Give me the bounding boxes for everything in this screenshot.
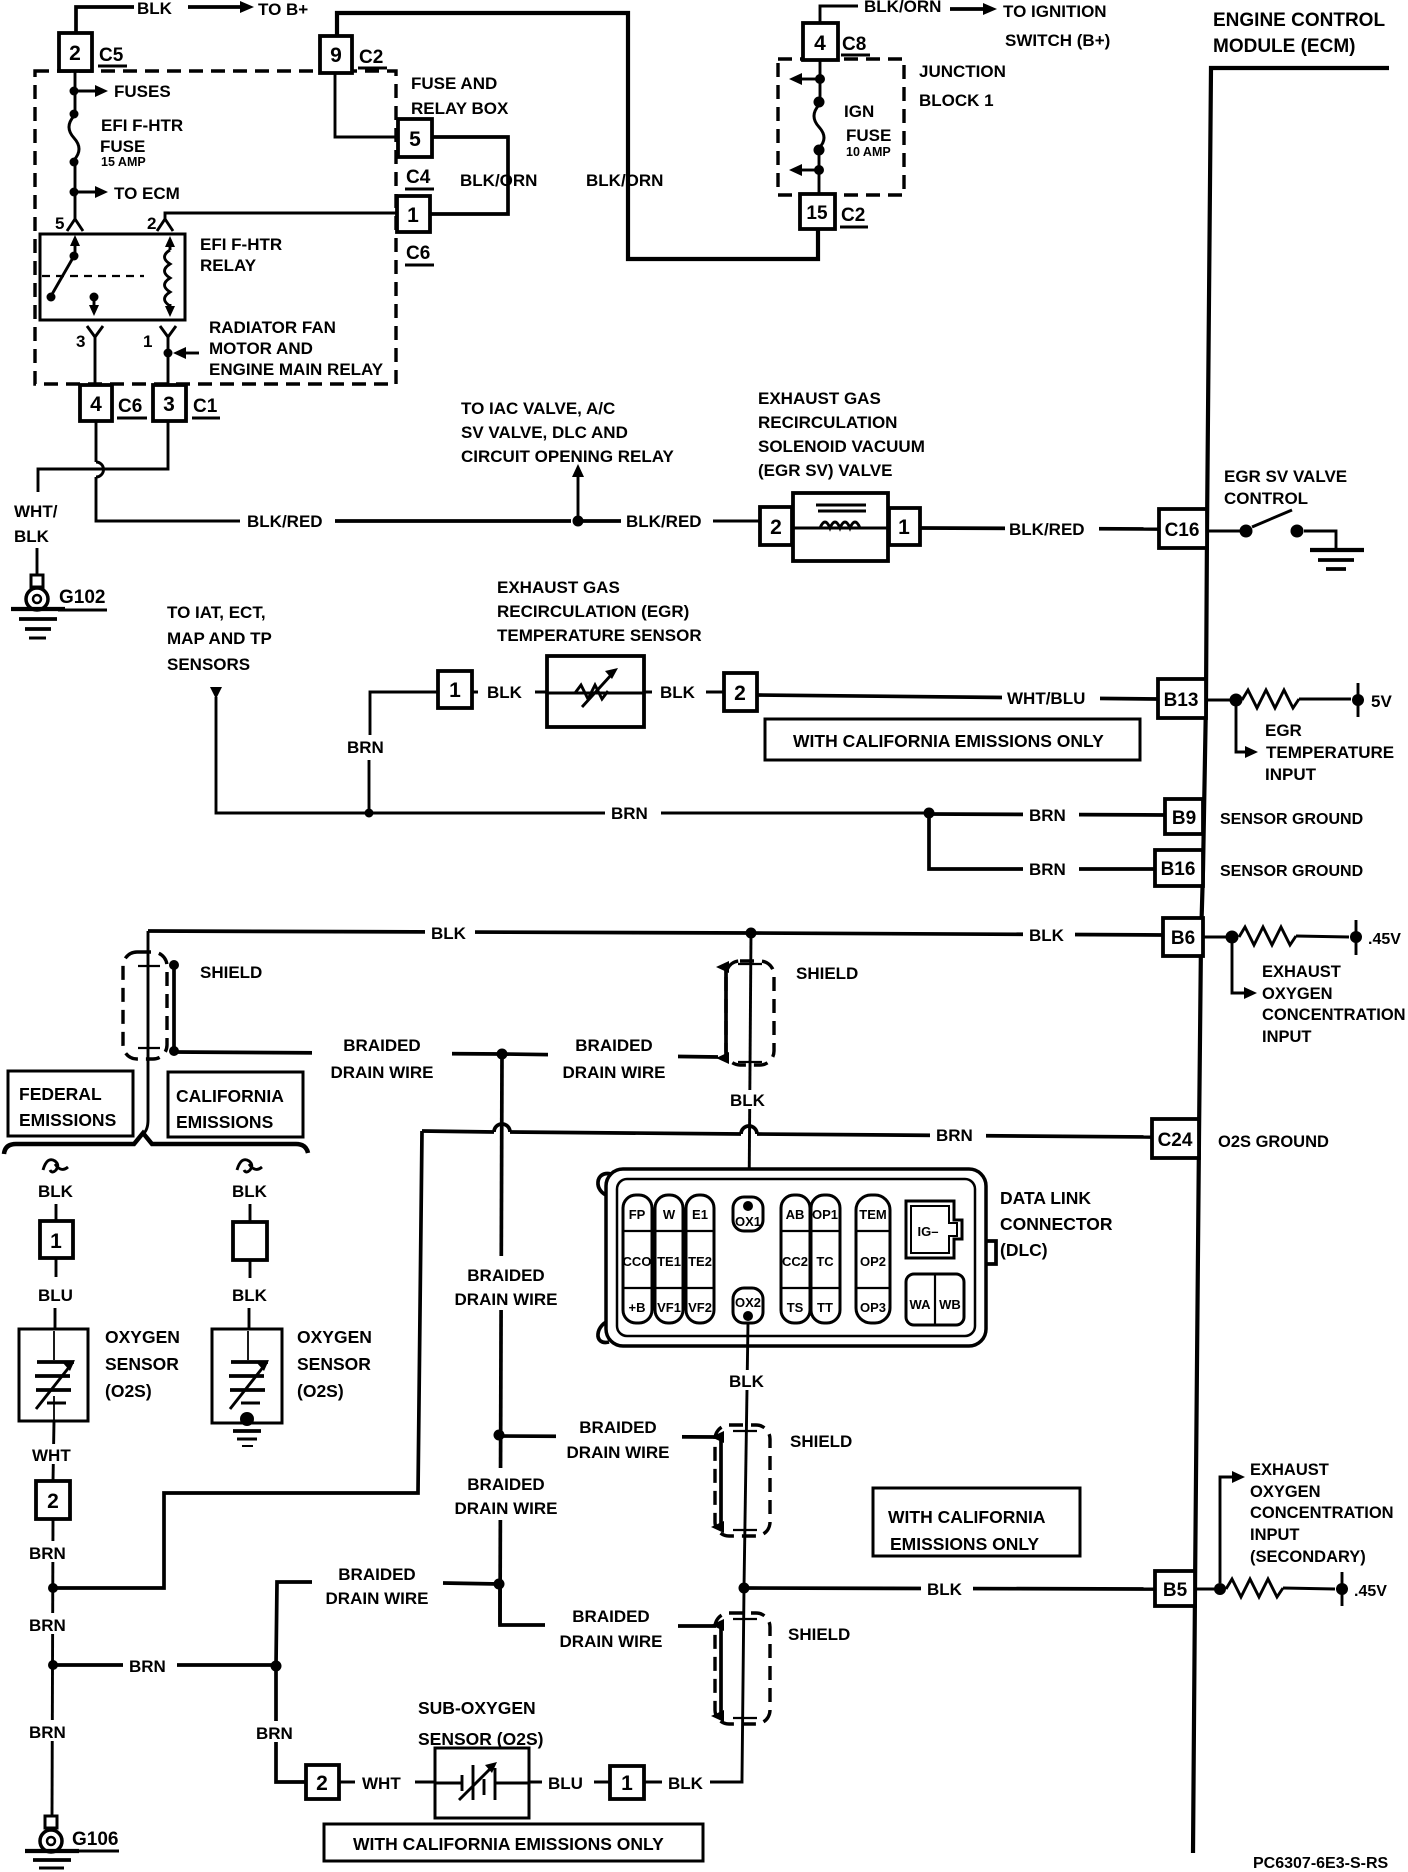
svg-text:TO ECM: TO ECM bbox=[114, 184, 180, 203]
label BLK bbox=[472, 691, 547, 694]
svg-text:.45V: .45V bbox=[1368, 931, 1401, 948]
svg-text:1: 1 bbox=[407, 204, 419, 227]
svg-text:DRAIN WIRE: DRAIN WIRE bbox=[331, 1063, 434, 1082]
svg-text:WHT: WHT bbox=[32, 1446, 71, 1465]
shield 3 bbox=[715, 1425, 770, 1536]
svg-text:EFI F-HTR: EFI F-HTR bbox=[101, 116, 183, 135]
node BLK to B5 bbox=[739, 1583, 750, 1594]
svg-text:BRN: BRN bbox=[1029, 806, 1066, 825]
svg-text:BRAIDED: BRAIDED bbox=[338, 1565, 415, 1584]
EGR temp pin 1 bbox=[438, 671, 472, 708]
svg-text:MODULE (ECM): MODULE (ECM) bbox=[1213, 36, 1355, 57]
node BLK to OX1 bbox=[746, 928, 757, 939]
svg-text:AB: AB bbox=[786, 1207, 805, 1222]
node BRN to O2S ground network bbox=[48, 1583, 58, 1593]
svg-text:CIRCUIT OPENING RELAY: CIRCUIT OPENING RELAY bbox=[461, 447, 675, 466]
label BLK bbox=[1023, 924, 1075, 945]
DLC pin column OP1/TC/TT bbox=[811, 1195, 840, 1323]
box WITH CALIFORNIA EMISSIONS ONLY bbox=[873, 1488, 1080, 1556]
svg-text:TO IAC VALVE, A/C: TO IAC VALVE, A/C bbox=[461, 399, 615, 418]
svg-text:BLK: BLK bbox=[232, 1182, 268, 1201]
svg-text:BLK/RED: BLK/RED bbox=[247, 512, 323, 531]
connector 4 C8 bbox=[803, 23, 838, 60]
arrow EGR TEMPERATURE INPUT bbox=[1236, 706, 1248, 752]
svg-text:VF2: VF2 bbox=[688, 1300, 712, 1315]
node california BRN junction bbox=[271, 1661, 282, 1672]
relay EFI F-HTR box bbox=[40, 234, 185, 320]
connector 4 C6 bbox=[80, 385, 112, 421]
node and arrow TO ECM bbox=[70, 188, 79, 197]
DLC pins WA WB bbox=[906, 1274, 964, 1325]
svg-text:SENSOR GROUND: SENSOR GROUND bbox=[1220, 863, 1363, 880]
svg-text:DRAIN WIRE: DRAIN WIRE bbox=[563, 1063, 666, 1082]
EGR SV valve body with coil bbox=[793, 493, 888, 561]
DLC pin column FP/CCO/+B bbox=[623, 1195, 652, 1323]
svg-text:INPUT: INPUT bbox=[1262, 1028, 1312, 1046]
svg-text:BLK: BLK bbox=[431, 924, 467, 943]
ground at california O2S bbox=[240, 1412, 254, 1426]
svg-text:CC2: CC2 bbox=[782, 1254, 808, 1269]
svg-text:10 AMP: 10 AMP bbox=[846, 145, 891, 159]
svg-text:SHIELD: SHIELD bbox=[200, 963, 262, 982]
svg-text:WA: WA bbox=[910, 1297, 932, 1312]
svg-text:BLK: BLK bbox=[38, 1182, 74, 1201]
svg-text:5: 5 bbox=[55, 214, 64, 233]
svg-text:WHT/: WHT/ bbox=[14, 502, 58, 521]
svg-text:B16: B16 bbox=[1161, 859, 1196, 880]
label BLU bbox=[529, 1781, 610, 1784]
svg-text:OP1: OP1 bbox=[812, 1207, 838, 1222]
wire from 3 C1 to G102 bbox=[38, 421, 168, 492]
label BLK/RED bbox=[241, 511, 335, 532]
svg-text:TE1: TE1 bbox=[657, 1254, 681, 1269]
svg-text:1: 1 bbox=[898, 516, 910, 539]
svg-text:C4: C4 bbox=[406, 167, 431, 188]
DLC data link connector shell bbox=[598, 1174, 611, 1196]
BRN horizontal to california branch bbox=[53, 1663, 276, 1667]
wire from 4 C6 down with hop over WHT/BLK, then BLK/RED bbox=[95, 421, 98, 462]
svg-text:BLK: BLK bbox=[232, 1286, 268, 1305]
svg-text:CONNECTOR: CONNECTOR bbox=[1000, 1214, 1113, 1234]
DLC OX2 pin dot bbox=[743, 1311, 753, 1321]
wire WHT bbox=[53, 1421, 54, 1481]
svg-text:TO IGNITION: TO IGNITION bbox=[1003, 2, 1107, 21]
svg-text:BRN: BRN bbox=[611, 804, 648, 823]
svg-text:TE2: TE2 bbox=[688, 1254, 712, 1269]
svg-text:OX2: OX2 bbox=[735, 1295, 761, 1310]
relay pin 3 female connector bbox=[87, 326, 103, 337]
EGR SV valve pin 1 bbox=[889, 508, 920, 545]
svg-text:TS: TS bbox=[787, 1300, 804, 1315]
node pin1 with arrow from radiator fan relay bbox=[164, 349, 173, 358]
federal emissions box bbox=[8, 1071, 133, 1136]
O2S federal pin 1 bbox=[40, 1221, 73, 1258]
svg-text:WITH CALIFORNIA EMISSIONS ONLY: WITH CALIFORNIA EMISSIONS ONLY bbox=[793, 731, 1104, 751]
relay contact pin3 bbox=[90, 293, 99, 302]
DLC pin column AB/CC2/TS bbox=[781, 1195, 810, 1323]
wire BRN chain to G106 bbox=[52, 1519, 53, 1816]
svg-text:EMISSIONS: EMISSIONS bbox=[176, 1112, 273, 1132]
svg-text:FUSES: FUSES bbox=[114, 82, 171, 101]
svg-text:SHIELD: SHIELD bbox=[788, 1625, 850, 1644]
wire left BLK down to emissions brace bbox=[143, 931, 148, 1134]
ground G106 bbox=[45, 1816, 57, 1828]
O2S california connector box bbox=[233, 1222, 267, 1260]
shield 4 bbox=[715, 1613, 770, 1724]
svg-text:RECIRCULATION (EGR): RECIRCULATION (EGR) bbox=[497, 602, 689, 621]
svg-text:WHT: WHT bbox=[362, 1774, 401, 1793]
arrow to B+ bbox=[188, 5, 243, 9]
svg-text:SENSOR: SENSOR bbox=[297, 1354, 371, 1374]
svg-text:2: 2 bbox=[316, 1772, 328, 1795]
svg-text:1: 1 bbox=[621, 1772, 633, 1795]
label BLK bbox=[644, 691, 724, 694]
sub O2S pin 2 bbox=[306, 1765, 339, 1799]
DLC OX1 pin dot bbox=[743, 1201, 753, 1211]
svg-text:BLK/RED: BLK/RED bbox=[626, 512, 702, 531]
svg-text:BRAIDED: BRAIDED bbox=[572, 1607, 649, 1626]
svg-text:15: 15 bbox=[806, 203, 828, 224]
DLC pin column E1/TE2/VF2 bbox=[686, 1195, 714, 1323]
svg-text:EXHAUST: EXHAUST bbox=[1250, 1461, 1329, 1479]
svg-text:SWITCH (B+): SWITCH (B+) bbox=[1005, 31, 1110, 50]
dashed box EFI F-HTR relay / fuse area bbox=[35, 71, 396, 384]
svg-text:G102: G102 bbox=[59, 587, 105, 608]
svg-text:TO IAT, ECT,: TO IAT, ECT, bbox=[167, 603, 266, 622]
label BLK bbox=[727, 1090, 771, 1109]
oxygen sensor federal body bbox=[19, 1329, 88, 1421]
node EGR BRN joins bbox=[365, 809, 374, 818]
fuse EFI F-HTR 15 AMP squiggle bbox=[69, 116, 79, 160]
svg-text:DRAIN WIRE: DRAIN WIRE bbox=[455, 1499, 558, 1518]
oxygen sensor california body bbox=[212, 1329, 282, 1423]
wire BLK O2S signal line to B6 bbox=[148, 931, 1163, 935]
svg-text:DATA LINK: DATA LINK bbox=[1000, 1188, 1091, 1208]
svg-text:OX1: OX1 bbox=[735, 1214, 761, 1229]
svg-text:BRN: BRN bbox=[29, 1616, 66, 1635]
svg-text:C6: C6 bbox=[406, 243, 430, 264]
arrow from IAT/ECT sensors down to BRN line bbox=[210, 687, 222, 699]
svg-text:RECIRCULATION: RECIRCULATION bbox=[758, 413, 897, 432]
svg-text:SENSORS: SENSORS bbox=[167, 655, 250, 674]
ECM connector B5 bbox=[1155, 1571, 1195, 1606]
svg-text:BRN: BRN bbox=[29, 1723, 66, 1742]
svg-text:DRAIN WIRE: DRAIN WIRE bbox=[455, 1290, 558, 1309]
wire down to sub O2S pin 2 bbox=[276, 1666, 306, 1782]
svg-text:VF1: VF1 bbox=[657, 1300, 681, 1315]
svg-text:OP3: OP3 bbox=[860, 1300, 886, 1315]
svg-text:TEM: TEM bbox=[859, 1207, 886, 1222]
svg-text:FP: FP bbox=[629, 1207, 646, 1222]
label WHT/BLU bbox=[1002, 687, 1100, 708]
svg-text:3: 3 bbox=[163, 393, 175, 416]
label BRN bbox=[1023, 804, 1079, 826]
svg-text:C8: C8 bbox=[842, 34, 866, 55]
svg-text:CALIFORNIA: CALIFORNIA bbox=[176, 1086, 284, 1106]
svg-text:FUSE: FUSE bbox=[100, 137, 145, 156]
label WHT bbox=[339, 1781, 435, 1784]
resistor to .45V bbox=[1214, 1583, 1226, 1595]
EGR SV valve pin 2 bbox=[760, 507, 792, 545]
svg-text:BRAIDED: BRAIDED bbox=[343, 1036, 420, 1055]
svg-text:OP2: OP2 bbox=[860, 1254, 886, 1269]
connector 2 C5 bbox=[59, 33, 92, 71]
svg-text:BLK: BLK bbox=[487, 683, 523, 702]
svg-text:3: 3 bbox=[76, 332, 85, 351]
svg-text:(DLC): (DLC) bbox=[1000, 1240, 1048, 1260]
svg-text:BLK: BLK bbox=[668, 1774, 704, 1793]
label BRN bbox=[1023, 858, 1079, 880]
svg-text:4: 4 bbox=[90, 393, 102, 416]
wire from C5 pin 2 down bbox=[74, 71, 77, 117]
svg-text:B5: B5 bbox=[1163, 1580, 1188, 1601]
relay linkage dashed bbox=[42, 275, 144, 277]
svg-text:9: 9 bbox=[330, 44, 342, 67]
svg-text:CONTROL: CONTROL bbox=[1224, 489, 1308, 508]
svg-text:INPUT: INPUT bbox=[1250, 1526, 1300, 1544]
ground G102 bbox=[31, 575, 43, 587]
svg-text:C6: C6 bbox=[118, 396, 142, 417]
node above fuse bbox=[70, 110, 79, 119]
EGR temperature sensor body bbox=[547, 656, 644, 727]
svg-text:5: 5 bbox=[409, 128, 421, 151]
wire BRN to B16 bbox=[929, 813, 1155, 869]
svg-text:EGR SV VALVE: EGR SV VALVE bbox=[1224, 467, 1347, 486]
svg-text:MOTOR AND: MOTOR AND bbox=[209, 339, 313, 358]
svg-text:ENGINE MAIN RELAY: ENGINE MAIN RELAY bbox=[209, 360, 384, 379]
svg-text:EXHAUST: EXHAUST bbox=[1262, 963, 1341, 981]
svg-text:C16: C16 bbox=[1165, 520, 1200, 541]
svg-text:SENSOR GROUND: SENSOR GROUND bbox=[1220, 811, 1363, 828]
svg-text:BRN: BRN bbox=[129, 1657, 166, 1676]
svg-text:INPUT: INPUT bbox=[1265, 765, 1317, 784]
svg-text:BLK: BLK bbox=[137, 0, 173, 18]
svg-text:EFI F-HTR: EFI F-HTR bbox=[200, 235, 282, 254]
O2S ground network routing bbox=[53, 1131, 422, 1588]
svg-text:C1: C1 bbox=[193, 396, 218, 417]
label BLK bbox=[425, 922, 475, 943]
wire OX2 down through shields to sub O2S bbox=[744, 1323, 748, 1588]
svg-text:C2: C2 bbox=[359, 47, 383, 68]
label BLK bbox=[644, 1781, 742, 1784]
shield middle bbox=[726, 961, 774, 1065]
svg-text:C24: C24 bbox=[1158, 1130, 1193, 1151]
resistor to 5V bbox=[1206, 699, 1230, 702]
svg-text:SV VALVE, DLC AND: SV VALVE, DLC AND bbox=[461, 423, 628, 442]
ECM boundary line bbox=[1193, 68, 1389, 1853]
label BLK/RED bbox=[1005, 518, 1099, 539]
wire EGR temp pin1 left and BRN down bbox=[370, 692, 438, 735]
wire 5 C4 to 1 C6 bbox=[430, 137, 508, 214]
svg-text:BLK: BLK bbox=[1029, 926, 1065, 945]
svg-text:BLU: BLU bbox=[548, 1774, 583, 1793]
svg-text:JUNCTION: JUNCTION bbox=[919, 62, 1006, 81]
ECM connector B13 bbox=[1158, 679, 1206, 718]
svg-text:IGN: IGN bbox=[844, 102, 874, 121]
wire BLK to B5 bbox=[744, 1588, 1155, 1589]
svg-text:SENSOR: SENSOR bbox=[105, 1354, 179, 1374]
svg-text:TEMPERATURE: TEMPERATURE bbox=[1266, 743, 1394, 762]
box WITH CALIFORNIA EMISSIONS ONLY bbox=[765, 719, 1140, 760]
svg-text:WITH CALIFORNIA: WITH CALIFORNIA bbox=[888, 1507, 1046, 1527]
label BRN bbox=[605, 802, 661, 824]
relay pin 2 female connector bbox=[157, 219, 173, 231]
node to IAC valve bbox=[573, 516, 584, 527]
svg-text:1: 1 bbox=[50, 1230, 62, 1253]
connector 5 C4 bbox=[398, 119, 432, 157]
svg-text:5V: 5V bbox=[1371, 692, 1392, 711]
svg-text:BLK: BLK bbox=[14, 527, 50, 546]
svg-text:RELAY BOX: RELAY BOX bbox=[411, 99, 509, 118]
O2S federal pin 2 bbox=[36, 1481, 70, 1519]
label BRN bbox=[930, 1125, 986, 1145]
svg-text:EXHAUST GAS: EXHAUST GAS bbox=[497, 578, 620, 597]
svg-text:CCO: CCO bbox=[623, 1254, 652, 1269]
svg-text:BLK/ORN: BLK/ORN bbox=[586, 171, 663, 190]
svg-text:DRAIN WIRE: DRAIN WIRE bbox=[567, 1443, 670, 1462]
wire relay pin2 to fuse box 1 C6 bbox=[165, 213, 397, 219]
relay pin 1 female connector bbox=[160, 326, 176, 337]
wire braided down to shield 4 bbox=[500, 1584, 545, 1625]
squiggle break federal O2S bbox=[43, 1160, 68, 1172]
node below fuse bbox=[70, 158, 79, 167]
squiggle break california O2S bbox=[237, 1160, 262, 1172]
svg-text:BRAIDED: BRAIDED bbox=[467, 1266, 544, 1285]
braided drain vertical wire bbox=[500, 1054, 502, 1625]
svg-text:BLOCK 1: BLOCK 1 bbox=[919, 91, 994, 110]
shield left (federal O2S) bbox=[123, 952, 167, 1059]
svg-text:G106: G106 bbox=[72, 1829, 118, 1850]
svg-text:TEMPERATURE SENSOR: TEMPERATURE SENSOR bbox=[497, 626, 702, 645]
fuse IGN 10 AMP squiggle bbox=[814, 105, 824, 148]
svg-text:(O2S): (O2S) bbox=[105, 1381, 152, 1401]
sub oxygen sensor body bbox=[435, 1748, 529, 1818]
svg-text:W: W bbox=[663, 1207, 676, 1222]
svg-text:B13: B13 bbox=[1164, 690, 1199, 711]
svg-text:BRN: BRN bbox=[256, 1724, 293, 1743]
ECM connector B9 sensor ground bbox=[1165, 799, 1203, 834]
IGN fuse wire bbox=[819, 60, 822, 104]
svg-text:RADIATOR FAN: RADIATOR FAN bbox=[209, 318, 336, 337]
svg-text:C5: C5 bbox=[99, 45, 124, 66]
svg-text:BRN: BRN bbox=[1029, 860, 1066, 879]
svg-text:BLK/ORN: BLK/ORN bbox=[460, 171, 537, 190]
svg-text:ENGINE CONTROL: ENGINE CONTROL bbox=[1213, 10, 1385, 31]
svg-text:FUSE: FUSE bbox=[846, 126, 891, 145]
box WITH CALIFORNIA EMISSIONS ONLY bottom bbox=[324, 1824, 703, 1861]
fuse box connector 9 C2 bbox=[320, 36, 352, 73]
svg-text:.45V: .45V bbox=[1354, 1583, 1387, 1600]
svg-text:EMISSIONS ONLY: EMISSIONS ONLY bbox=[890, 1534, 1039, 1554]
svg-text:BRN: BRN bbox=[29, 1544, 66, 1563]
svg-text:BRAIDED: BRAIDED bbox=[579, 1418, 656, 1437]
connector 3 C1 bbox=[153, 385, 186, 421]
svg-text:FUSE AND: FUSE AND bbox=[411, 74, 497, 93]
node braided junction bbox=[497, 1049, 508, 1060]
svg-text:CONCENTRATION: CONCENTRATION bbox=[1262, 1006, 1406, 1024]
svg-text:15 AMP: 15 AMP bbox=[101, 155, 146, 169]
sub O2S pin 1 bbox=[610, 1766, 644, 1799]
svg-text:2: 2 bbox=[47, 1490, 59, 1513]
node BRN split to B9/B16 bbox=[924, 808, 935, 819]
california emissions box bbox=[168, 1072, 303, 1137]
node BRN to california branch bbox=[48, 1660, 58, 1670]
wire BLK/ORN to ignition switch bbox=[820, 6, 858, 23]
label BLK/RED bbox=[622, 511, 714, 532]
svg-text:SENSOR (O2S): SENSOR (O2S) bbox=[418, 1729, 543, 1749]
svg-text:WHT/BLU: WHT/BLU bbox=[1007, 689, 1085, 708]
svg-text:SHIELD: SHIELD bbox=[790, 1432, 852, 1451]
svg-text:BLK: BLK bbox=[729, 1372, 765, 1391]
svg-text:2: 2 bbox=[734, 682, 746, 705]
svg-text:BRAIDED: BRAIDED bbox=[467, 1475, 544, 1494]
svg-text:C2: C2 bbox=[841, 205, 865, 226]
svg-text:RELAY: RELAY bbox=[200, 256, 257, 275]
svg-text:1: 1 bbox=[449, 679, 461, 702]
svg-text:E1: E1 bbox=[692, 1207, 708, 1222]
arrow EXHAUST OXYGEN CONCENTRATION INPUT (SECONDARY) bbox=[1220, 1477, 1234, 1583]
relay coil bbox=[165, 236, 175, 247]
heavy wire from B+ line down through 15 C2 bbox=[337, 13, 818, 259]
arrow EXHAUST OXYGEN CONCENTRATION INPUT bbox=[1232, 943, 1246, 993]
wire BLK from node down to OX1 bbox=[749, 933, 751, 1203]
svg-text:SOLENOID VACUUM: SOLENOID VACUUM bbox=[758, 437, 925, 456]
svg-text:OXYGEN: OXYGEN bbox=[1250, 1483, 1321, 1501]
svg-text:2: 2 bbox=[770, 516, 782, 539]
BRN O2S ground line to C24 with hops bbox=[422, 1131, 494, 1132]
svg-text:IG–: IG– bbox=[918, 1224, 939, 1239]
DLC pin OX1 bbox=[733, 1197, 763, 1231]
svg-text:EMISSIONS: EMISSIONS bbox=[19, 1110, 116, 1130]
DLC pin column W/TE1/VF1 bbox=[655, 1195, 683, 1323]
svg-text:OXYGEN: OXYGEN bbox=[1262, 985, 1333, 1003]
wire to C16 bbox=[920, 528, 1159, 529]
ECM connector B6 bbox=[1163, 918, 1203, 956]
svg-text:BRAIDED: BRAIDED bbox=[575, 1036, 652, 1055]
connector 15 C2 bbox=[800, 194, 835, 229]
svg-text:OXYGEN: OXYGEN bbox=[105, 1327, 180, 1347]
ECM connector C16 bbox=[1159, 509, 1207, 548]
svg-text:BLK: BLK bbox=[730, 1091, 766, 1110]
svg-text:B9: B9 bbox=[1172, 808, 1196, 829]
svg-text:EGR: EGR bbox=[1265, 721, 1302, 740]
svg-text:4: 4 bbox=[814, 32, 826, 55]
svg-text:+B: +B bbox=[629, 1300, 646, 1315]
brace under emissions boxes bbox=[4, 1133, 308, 1154]
connector 1 C6 bbox=[397, 196, 430, 232]
svg-text:MAP AND TP: MAP AND TP bbox=[167, 629, 272, 648]
svg-text:PC6307-6E3-S-RS: PC6307-6E3-S-RS bbox=[1253, 1855, 1389, 1872]
svg-text:EXHAUST GAS: EXHAUST GAS bbox=[758, 389, 881, 408]
svg-text:B6: B6 bbox=[1171, 928, 1195, 949]
ECM connector C24 O2S ground bbox=[1152, 1119, 1199, 1158]
svg-text:BLK/RED: BLK/RED bbox=[1009, 520, 1085, 539]
node braided to BRN network bbox=[494, 1579, 505, 1590]
svg-text:(EGR SV) VALVE: (EGR SV) VALVE bbox=[758, 461, 892, 480]
svg-text:TC: TC bbox=[816, 1254, 834, 1269]
EGR temp pin 2 bbox=[724, 673, 757, 711]
svg-text:1: 1 bbox=[143, 332, 152, 351]
svg-text:SHIELD: SHIELD bbox=[796, 964, 858, 983]
node and arrow FUSES bbox=[70, 87, 79, 96]
node braided to shield 3 bbox=[494, 1430, 505, 1441]
relay contact arm bbox=[74, 238, 77, 254]
svg-text:(SECONDARY): (SECONDARY) bbox=[1250, 1548, 1366, 1566]
junction block 1 dashed box bbox=[778, 59, 904, 195]
svg-text:(O2S): (O2S) bbox=[297, 1381, 344, 1401]
svg-text:SUB-OXYGEN: SUB-OXYGEN bbox=[418, 1698, 536, 1718]
switch EGR SV valve control bbox=[1207, 530, 1240, 533]
